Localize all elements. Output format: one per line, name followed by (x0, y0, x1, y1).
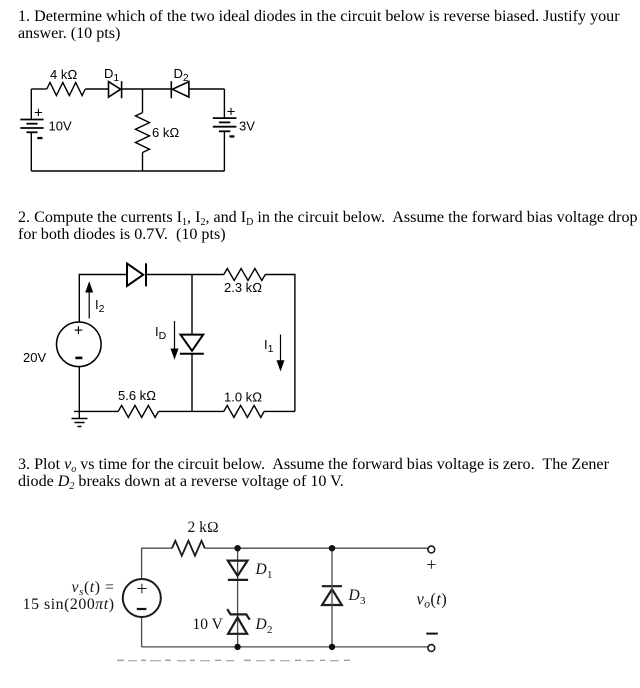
battery V1 10V (20, 120, 43, 133)
svg-text:1.0 kΩ: 1.0 kΩ (224, 390, 262, 405)
wire: c1 right vertical lower (223, 131, 225, 171)
wire: c1 top between 4k and D1 (85, 88, 108, 90)
arrow I1 (277, 335, 285, 372)
wire: c2 middle branch lower (191, 354, 193, 412)
svg-text:+: + (426, 555, 436, 575)
svg-text:10 V: 10 V (193, 616, 224, 633)
diode D-mid pointing down (180, 335, 204, 354)
diode D3 (322, 586, 342, 605)
label minus source c3 (137, 608, 147, 610)
wire: c3 top right segment (332, 547, 428, 549)
svg-text:+: + (136, 578, 147, 600)
resistor R 6k (136, 113, 150, 153)
battery V2 3V (213, 118, 237, 131)
wire: c3 source lower (141, 617, 143, 647)
wire: c2 top-right corner (265, 275, 295, 412)
svg-text:1: 1 (267, 569, 273, 581)
faint cropped caption (117, 660, 350, 662)
wire: c3 D3 branch (331, 548, 333, 647)
zener diode D2 (227, 609, 250, 634)
svg-text:15 sin(200πt): 15 sin(200πt) (23, 596, 115, 613)
svg-text:3V: 3V (239, 119, 255, 134)
svg-text:20V: 20V (23, 350, 46, 365)
svg-text:D2: D2 (174, 66, 189, 84)
wire: c3 D1-D2 branch (237, 548, 239, 647)
svg-text:I2: I2 (95, 297, 105, 315)
svg-text:5.6 kΩ: 5.6 kΩ (118, 388, 156, 403)
svg-text:+: + (74, 323, 83, 340)
label minus VS (75, 357, 82, 360)
wire: c1 middle branch lower (142, 153, 144, 172)
svg-text:3: 3 (360, 595, 366, 607)
wire: c1 top-left segment (31, 88, 47, 90)
question 1 text (18, 8, 640, 42)
terminal top open circle (428, 546, 435, 553)
source vs(t) circle (123, 579, 161, 617)
diode D1 (228, 561, 248, 580)
wire: c2 top between diode and node (146, 274, 224, 276)
wire: c2 bottom left segment (74, 410, 118, 412)
wire: c2 bottom mid segment (159, 410, 224, 412)
ground (72, 419, 88, 427)
label minus V1 (37, 137, 42, 139)
wire: c2 source to bottom rail (78, 367, 80, 419)
svg-text:ID: ID (155, 324, 167, 342)
wire: c1 bottom rail (31, 170, 224, 172)
resistor R 5.6k (118, 405, 158, 417)
source VS 20V circle (57, 322, 102, 367)
resistor R 2k (172, 541, 205, 556)
svg-text:D: D (255, 616, 267, 633)
svg-text:D: D (348, 587, 360, 604)
question 3 text (18, 456, 640, 490)
svg-text:+: + (34, 104, 43, 121)
wire: c3 top-left segment (142, 548, 172, 579)
diode D1 (109, 81, 122, 98)
wire: c2 middle branch upper (191, 275, 193, 335)
svg-text:vo(t): vo(t) (417, 589, 448, 610)
resistor R 2.3k (224, 269, 265, 281)
wire: c3 bottom rail (142, 646, 428, 648)
svg-text:I1: I1 (264, 337, 274, 355)
resistor R 4k (47, 83, 86, 96)
label minus terminal (426, 633, 438, 635)
svg-text:10V: 10V (49, 119, 72, 134)
resistor R 1.0k (224, 405, 264, 417)
label minus V2 (230, 135, 235, 137)
diode D2 (171, 81, 189, 98)
wire: c1 middle branch upper (142, 89, 144, 113)
terminal bottom open circle (428, 645, 435, 652)
question 2 text (18, 209, 640, 243)
wire: c1 left vertical upper (30, 89, 32, 120)
wire: c1 left vertical lower (30, 132, 32, 171)
wire: c2 top-left segment (79, 275, 127, 323)
svg-text:+: + (227, 103, 236, 120)
diode D-top (127, 263, 146, 286)
svg-text:2.3 kΩ: 2.3 kΩ (224, 280, 262, 295)
svg-text:D1: D1 (104, 66, 119, 84)
wire: c1 right vertical upper (223, 89, 225, 118)
node B dot (329, 545, 335, 551)
node A dot (234, 545, 240, 551)
svg-text:2: 2 (267, 624, 273, 636)
wire: c1 top between D1 and D2 (122, 88, 172, 90)
node D dot (329, 644, 335, 650)
arrow I2 (85, 281, 93, 318)
svg-text:4 kΩ: 4 kΩ (50, 67, 77, 82)
arrow ID (171, 321, 179, 360)
svg-text:2 kΩ: 2 kΩ (188, 519, 219, 536)
svg-text:6 kΩ: 6 kΩ (152, 125, 179, 140)
node C dot (234, 644, 240, 650)
wire: c3 top mid segment (205, 547, 332, 549)
svg-text:D: D (255, 561, 267, 578)
wire: c2 bottom right segment (264, 410, 295, 412)
wire: c1 top-right segment (189, 88, 225, 90)
